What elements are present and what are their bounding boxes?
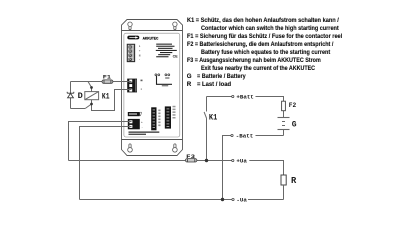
- svg-text:F1: F1: [103, 74, 112, 81]
- svg-text:+: +: [141, 121, 143, 124]
- svg-text:R: R: [291, 176, 297, 186]
- svg-text:G: G: [292, 121, 297, 130]
- svg-text:-: -: [141, 126, 143, 129]
- svg-text:+Batt: +Batt: [236, 94, 253, 101]
- svg-text:F2: F2: [289, 102, 297, 109]
- svg-text:-Ua: -Ua: [236, 197, 247, 204]
- svg-text:-Batt: -Batt: [236, 133, 253, 140]
- svg-text:K1: K1: [209, 112, 217, 122]
- svg-text:CE: CE: [173, 54, 179, 58]
- svg-text:D: D: [78, 91, 83, 101]
- svg-text:AKKUTEC: AKKUTEC: [143, 36, 159, 40]
- svg-text:F3: F3: [186, 153, 196, 160]
- svg-text:+Ua: +Ua: [236, 158, 247, 165]
- svg-text:K1: K1: [102, 91, 110, 101]
